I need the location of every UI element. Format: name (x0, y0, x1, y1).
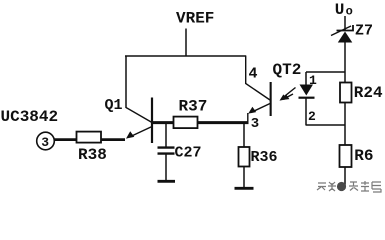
svg-text:2: 2 (308, 109, 316, 124)
svg-text:3: 3 (251, 116, 259, 132)
wire VREF stub (185, 29, 187, 57)
transistor Q1 emitter arrow (126, 131, 134, 138)
wire pin3 of QT2 down to node 3 (247, 113, 249, 123)
watermark 头条@大年君 (317, 181, 381, 192)
svg-text:UC3842: UC3842 (1, 108, 59, 126)
LED of QT2 cathode bar (299, 97, 315, 99)
wire U0 down (344, 16, 346, 31)
wire zener to R24 (344, 43, 346, 83)
phototransistor QT2 emitter (251, 104, 270, 113)
resistor R36 (239, 147, 250, 167)
svg-text:QT2: QT2 (273, 61, 302, 79)
capacitor C27 (158, 148, 175, 154)
wire R6 down (344, 167, 346, 186)
wire pin3 to R38 (54, 138, 76, 141)
svg-text:C27: C27 (175, 145, 202, 162)
zener Z7 slash (331, 26, 351, 36)
wire Q1 base to R37 (thick) (153, 121, 174, 124)
transistor Q1 collector (126, 108, 152, 123)
wire pin1 vertical (305, 72, 307, 85)
wire R37 to node 3 (thick) (198, 121, 249, 124)
LED of QT2 (anode triangle) (300, 85, 314, 96)
pin 3 circle of UC3842 (37, 132, 55, 150)
svg-text:R37: R37 (179, 98, 208, 116)
phototransistor QT2 base bar (270, 82, 272, 116)
svg-text:R24: R24 (354, 84, 383, 102)
transistor Q1 base bar (151, 98, 153, 144)
resistor R24 (340, 83, 352, 103)
wire pin1 top (306, 71, 345, 73)
wire R36 branch (243, 124, 245, 147)
wire pin4 of QT2 from rail (246, 56, 270, 101)
ground below C27 (158, 180, 176, 183)
svg-text:R36: R36 (251, 149, 278, 166)
svg-text:4: 4 (249, 66, 258, 83)
svg-text:R6: R6 (354, 147, 373, 165)
transistor Q1 emitter (130, 127, 153, 138)
phototransistor QT2 emitter arrow (248, 107, 256, 114)
opto light arrow 2 (283, 94, 293, 100)
ground below R36 (235, 187, 254, 190)
opto light arrow 1 (280, 88, 296, 101)
zener Z7 triangle (338, 32, 353, 43)
wire pin2 bottom (306, 124, 345, 126)
wire R38 to Q1 emitter (101, 138, 125, 141)
resistor R37 (174, 117, 198, 129)
resistor R38 (77, 132, 102, 143)
svg-text:U: U (335, 1, 345, 19)
wire pin2 vertical (305, 99, 307, 126)
zener Z7 cathode bar with hook (337, 25, 354, 31)
wire top rail (125, 55, 246, 57)
svg-text:Q1: Q1 (105, 97, 123, 114)
resistor R6 (340, 145, 352, 167)
watermark @ blob (337, 182, 346, 191)
svg-text:Z7: Z7 (355, 23, 373, 40)
wire C27 branch (165, 124, 167, 147)
svg-text:3: 3 (41, 135, 49, 150)
wire R36 to ground (243, 167, 245, 188)
wire C27 to ground (165, 155, 167, 181)
svg-text:VREF: VREF (176, 10, 214, 28)
svg-text:R38: R38 (78, 146, 107, 164)
svg-text:o: o (346, 5, 353, 19)
wire R24 to R6 (344, 103, 346, 146)
wire left vertical to Q1 collector (125, 56, 127, 109)
